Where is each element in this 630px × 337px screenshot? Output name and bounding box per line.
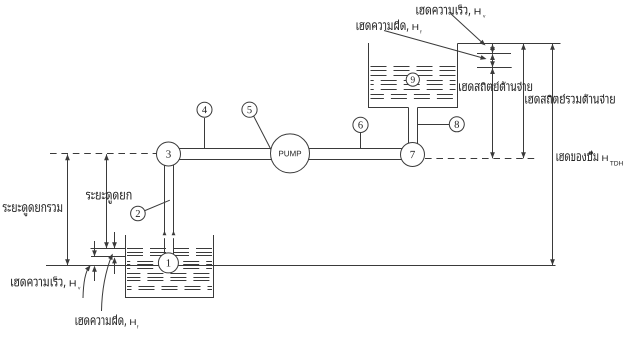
discharge upper intermediate level line xyxy=(477,53,511,55)
node 1 (suction inlet) xyxy=(158,253,178,273)
leader from node 2 to suction riser xyxy=(138,200,170,213)
static discharge head dimension line xyxy=(492,68,494,158)
discharge pipe vertical right line xyxy=(417,108,419,153)
suction tank xyxy=(126,235,214,298)
suction pipe vertical left line xyxy=(164,150,166,262)
node 3 (suction elbow) xyxy=(157,142,181,166)
flow arrow on suction riser right line xyxy=(173,235,174,238)
leader from node 5 to pump xyxy=(251,110,272,150)
leader from velocity-head label (top) xyxy=(451,14,484,44)
suction pipe horizontal top line xyxy=(160,148,292,150)
velocity head bracket arrows (suction) xyxy=(94,241,96,256)
total suction lift dimension line xyxy=(67,154,69,265)
label: static discharge head xyxy=(459,81,532,91)
discharge pipe horizontal top line xyxy=(288,148,410,150)
node 4 (suction pipe) xyxy=(197,102,212,117)
water hatch in suction tank xyxy=(127,249,212,290)
curved leader from velocity-head label (bottom) xyxy=(83,266,90,298)
leader from node 4 to suction pipe xyxy=(204,118,206,149)
node 6 (discharge pipe) xyxy=(353,117,368,132)
curved leader from friction-head label (bottom) xyxy=(102,255,113,311)
label: velocity head Hv (top) xyxy=(416,5,480,17)
suction lift dimension line xyxy=(106,154,108,248)
label: suction lift xyxy=(86,192,131,204)
suction side dashed reference line xyxy=(50,153,157,155)
label: pump head H TDH xyxy=(557,151,608,162)
suction pipe horizontal bottom line xyxy=(160,159,292,161)
velocity head double arrow (discharge) xyxy=(492,44,494,53)
node 5 (pump) xyxy=(242,102,257,117)
suction water level extension line xyxy=(91,248,126,250)
leader from node 6 to discharge pipe xyxy=(360,133,362,149)
label: friction head Hf (bottom) xyxy=(76,315,136,327)
discharge tank xyxy=(369,43,458,108)
discharge pipe vertical left line xyxy=(408,108,410,153)
datum line (pump centerline level) xyxy=(46,265,556,267)
node 2 (suction riser) xyxy=(131,206,146,221)
suction intermediate level line xyxy=(91,256,126,258)
leader from friction-head label (top) xyxy=(384,31,485,59)
node 7 (discharge elbow) xyxy=(401,143,425,167)
friction head bracket arrows (suction) xyxy=(114,232,116,248)
label: total suction lift xyxy=(3,204,62,216)
label: velocity head Hv (bottom) xyxy=(11,276,76,288)
node 9 (discharge tank) xyxy=(406,73,419,86)
leader from node 8 to discharge riser xyxy=(418,124,451,126)
label: friction head Hf (top) xyxy=(357,20,419,32)
water hatch in discharge tank xyxy=(371,67,456,99)
suction pipe vertical right line xyxy=(173,150,175,262)
label: total static discharge head xyxy=(525,94,615,104)
discharge side dashed reference line xyxy=(425,158,537,160)
node 8 (discharge riser) xyxy=(449,117,464,132)
pump circle xyxy=(271,134,310,173)
total static discharge head dimension line xyxy=(523,44,525,159)
discharge pipe horizontal bottom line xyxy=(288,159,410,161)
friction head double arrow (discharge) xyxy=(492,54,494,67)
flow arrow on suction riser left line xyxy=(164,235,165,238)
discharge water level extension line xyxy=(477,67,512,69)
discharge top level line xyxy=(458,43,561,45)
pump total head dimension line xyxy=(552,44,554,265)
